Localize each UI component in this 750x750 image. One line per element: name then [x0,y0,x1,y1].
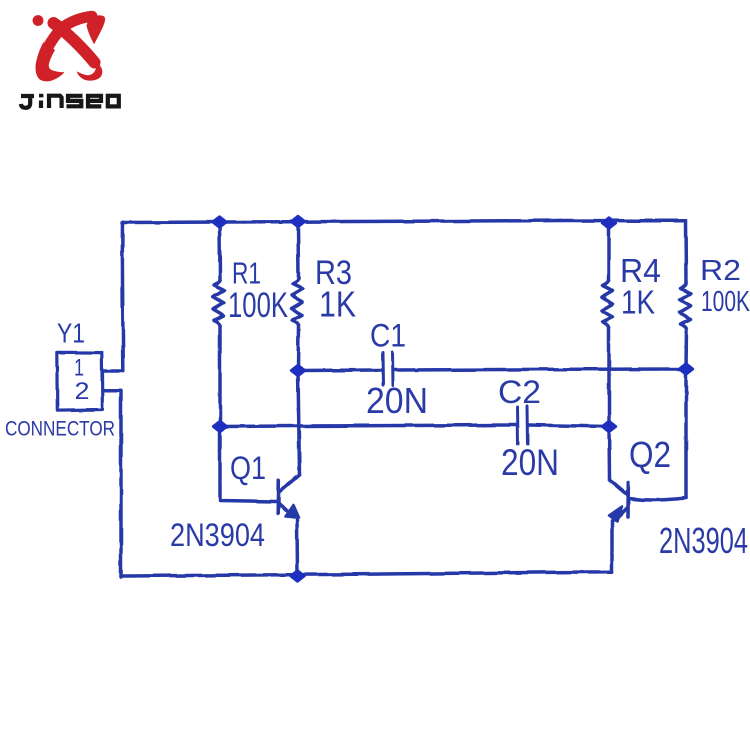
wire left vertical upper (to pin 1) [121,222,125,371]
wire R1 node down to Q1 base [220,427,277,502]
transistor Q1 base bar [276,481,280,514]
wire R4 node to Q2 collector [607,427,611,480]
svg-text:100K: 100K [701,286,750,318]
wire C2 left segment [220,425,516,427]
wire bottom rail [122,572,612,576]
connector Y1 box [57,352,103,410]
resistor R4 [602,281,613,327]
svg-text:20N: 20N [366,380,428,421]
logo swoosh stroke 2 (top-left to bottom-right) [54,23,95,63]
svg-text:1K: 1K [621,284,655,321]
wire R4 bottom lead to node [607,327,611,427]
transistor Q2 collector diagonal [610,480,629,496]
resistor R1 [213,280,224,326]
node R1/C2 [213,421,227,432]
logo swoosh stroke 1 (bottom-left to top-right) [45,16,92,52]
resistor R3 [292,279,303,325]
svg-text:Q1: Q1 [230,450,266,486]
node R4/C2 [602,421,616,432]
resistor R2 [680,283,691,329]
node Q1 emitter/bottom rail [291,571,305,582]
svg-text:C2: C2 [498,374,541,410]
svg-text:R2: R2 [700,255,741,287]
wire top-right corner down (R2 top lead) [684,221,688,283]
capacitor C1 plates [381,353,385,386]
wire C1 right plate to R2 node [394,369,686,370]
svg-text:Y1: Y1 [57,318,85,349]
svg-text:100K: 100K [228,286,288,325]
node top R1 [213,217,227,228]
transistor Q2 emitter diagonal [615,507,628,520]
transistor Q2 base bar [626,483,630,517]
wire Q2 emitter down [610,521,614,572]
svg-text:2N3904: 2N3904 [170,517,265,553]
logo text Jinseo [21,96,119,108]
wire pin 2 stub [103,391,121,577]
svg-text:CONNECTOR: CONNECTOR [5,418,115,441]
svg-text:20N: 20N [501,442,559,483]
wire Q1 collector riser [298,371,300,476]
svg-text:C1: C1 [370,318,406,354]
wire node to C1 left plate [298,368,381,372]
wire Q1 emitter down [295,520,299,577]
svg-text:2N3904: 2N3904 [659,520,748,561]
wire R1 top lead [218,222,222,280]
logo dot [33,15,44,26]
transistor Q1 emitter arrowhead [286,505,300,518]
transistor Q2 emitter arrowhead [609,507,622,522]
wire R4 top lead [607,222,611,282]
wire C2 right segment [529,425,609,427]
wire R2 bottom lead to node [684,329,688,369]
svg-text:2: 2 [75,378,90,405]
node R2/C1 [679,364,693,375]
node R3/C1 [291,365,305,376]
node top R3 [291,216,305,227]
wire R2 node down to Q2 base [684,369,688,498]
capacitor C2 plates [516,407,520,444]
svg-text:Q2: Q2 [629,434,671,475]
transistor Q1 emitter diagonal [280,504,294,518]
svg-text:1K: 1K [319,284,356,325]
wire R3 bottom lead to node [296,325,300,371]
wire R3 top lead [296,222,300,280]
wire top rail [122,221,686,223]
wire Q2 base lead [629,498,686,500]
wire pin 1 stub [103,369,123,373]
transistor Q1 collector diagonal [279,475,300,493]
wire R1 bottom lead to node [218,326,222,427]
node top R4 [602,218,616,229]
